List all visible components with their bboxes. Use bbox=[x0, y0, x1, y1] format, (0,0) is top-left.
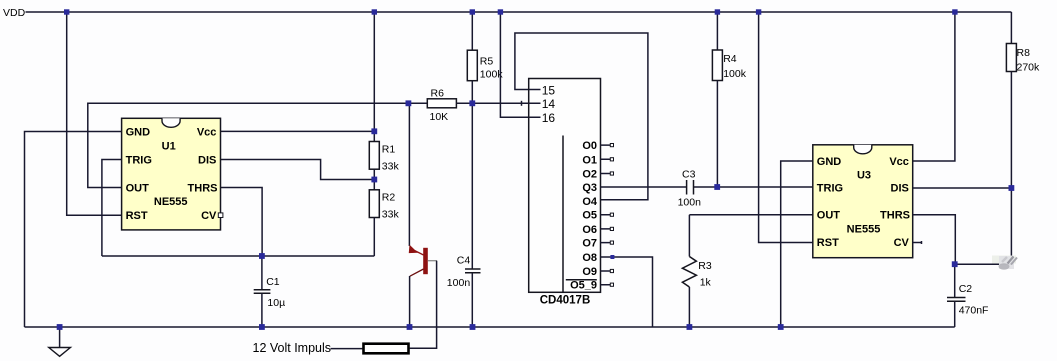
wire U1 Vcc to R1 top bbox=[221, 130, 375, 132]
svg-text:O6: O6 bbox=[582, 224, 597, 236]
svg-text:O8: O8 bbox=[582, 252, 597, 264]
svg-text:CV: CV bbox=[201, 210, 217, 222]
wire collector to bottom rail bbox=[409, 276, 411, 327]
svg-text:O4: O4 bbox=[582, 196, 598, 208]
svg-text:R6: R6 bbox=[431, 87, 445, 99]
wire U1 DIS to R1/R2 junction bbox=[221, 160, 375, 180]
svg-text:O5_9: O5_9 bbox=[570, 280, 597, 292]
svg-text:16: 16 bbox=[542, 111, 556, 125]
svg-text:10µ: 10µ bbox=[267, 297, 285, 309]
svg-text:10K: 10K bbox=[430, 111, 449, 123]
svg-text:C2: C2 bbox=[959, 283, 973, 295]
wire U1 RST to VDD rail bbox=[67, 12, 122, 215]
svg-text:33k: 33k bbox=[382, 208, 400, 220]
resistor R4 bbox=[712, 12, 746, 187]
wire U3 THRS to C2 node bbox=[913, 215, 956, 264]
svg-text:O9: O9 bbox=[582, 266, 597, 278]
svg-text:RST: RST bbox=[817, 237, 839, 249]
svg-text:DIS: DIS bbox=[891, 183, 909, 195]
svg-text:R1: R1 bbox=[382, 144, 396, 156]
svg-text:Vcc: Vcc bbox=[889, 156, 909, 168]
svg-text:12 Volt Impuls: 12 Volt Impuls bbox=[253, 341, 332, 355]
wire O4 loop to CD4017 pin 15 bbox=[515, 33, 648, 200]
svg-text:O0: O0 bbox=[582, 140, 597, 152]
wire U1 TRIG down to lower net bbox=[102, 160, 122, 257]
IC CD4017B bbox=[529, 79, 601, 307]
svg-text:R8: R8 bbox=[1017, 47, 1031, 59]
svg-text:33k: 33k bbox=[382, 161, 400, 173]
wire VDD to R1 chain bbox=[373, 12, 375, 142]
transistor Q1 bbox=[409, 246, 437, 277]
resistor R5 bbox=[467, 12, 503, 103]
op-amp U3 NE555 bbox=[813, 145, 913, 258]
wire U1 THRS down to lower net bbox=[221, 188, 263, 257]
svg-text:DIS: DIS bbox=[198, 154, 216, 166]
svg-text:470nF: 470nF bbox=[959, 304, 989, 316]
ground symbol bbox=[49, 327, 71, 356]
capacitor C3 bbox=[678, 169, 702, 209]
wire emitter to OUT/R6 junction bbox=[408, 103, 410, 246]
wire R3 top to U3 OUT bbox=[689, 214, 812, 216]
wire U3 DIS to R8 bbox=[913, 187, 1012, 189]
U3 CV stub bbox=[913, 241, 922, 244]
svg-text:1k: 1k bbox=[700, 277, 712, 289]
svg-text:Vcc: Vcc bbox=[197, 126, 217, 138]
svg-text:OUT: OUT bbox=[817, 210, 841, 222]
svg-text:O2: O2 bbox=[582, 169, 597, 181]
wire VDD to CD4017 pin 16 bbox=[500, 12, 540, 117]
wire VDD to U3 RST bbox=[759, 12, 813, 243]
svg-text:C3: C3 bbox=[682, 169, 696, 181]
wire base down to impulse box bbox=[410, 261, 437, 349]
resistor R1 bbox=[369, 142, 399, 173]
svg-text:C4: C4 bbox=[457, 254, 471, 266]
svg-text:O1: O1 bbox=[582, 154, 597, 166]
svg-text:R2: R2 bbox=[382, 191, 396, 203]
wire U3 GND to bottom rail bbox=[781, 161, 813, 327]
wire Q3 to C3 to U3 TRIG bbox=[601, 186, 813, 188]
pin 14 end tick bbox=[521, 101, 523, 106]
svg-text:CV: CV bbox=[894, 237, 910, 249]
svg-text:CD4017B: CD4017B bbox=[540, 294, 591, 306]
svg-text:15: 15 bbox=[542, 83, 556, 97]
svg-text:THRS: THRS bbox=[880, 210, 910, 222]
wire lower net THRS/C1/R2 bbox=[102, 255, 374, 257]
wire U1 GND to bottom-left rail corner bbox=[25, 132, 122, 328]
op-amp U1 NE555 bbox=[122, 118, 223, 230]
watermark cursor artifact bbox=[992, 256, 1017, 270]
resistor R3 zigzag bbox=[682, 215, 711, 327]
capacitor C1 bbox=[254, 256, 285, 327]
capacitor C4 bbox=[447, 103, 481, 327]
wire label to impulse box bbox=[331, 348, 363, 350]
wire bottom ground rail bbox=[25, 326, 955, 328]
svg-text:O5: O5 bbox=[582, 210, 597, 222]
svg-text:270k: 270k bbox=[1017, 61, 1041, 73]
capacitor C2 bbox=[947, 264, 988, 327]
svg-text:14: 14 bbox=[542, 97, 556, 111]
svg-text:VDD: VDD bbox=[3, 7, 26, 19]
svg-text:R4: R4 bbox=[723, 53, 737, 65]
svg-text:TRIG: TRIG bbox=[126, 154, 152, 166]
svg-text:O7: O7 bbox=[582, 238, 597, 250]
svg-text:NE555: NE555 bbox=[154, 196, 188, 208]
svg-text:GND: GND bbox=[817, 156, 842, 168]
svg-text:R5: R5 bbox=[480, 56, 494, 68]
svg-text:NE555: NE555 bbox=[847, 223, 881, 235]
svg-text:C1: C1 bbox=[266, 276, 280, 288]
wire R2 bottom to lower net bbox=[373, 218, 375, 257]
resistor R2 bbox=[369, 190, 399, 221]
wire R8 bottom to THRS node bbox=[955, 188, 1012, 264]
wire R1 to R2 bbox=[373, 169, 375, 190]
wire U3 Vcc to VDD rail bbox=[913, 12, 955, 161]
svg-text:OUT: OUT bbox=[126, 182, 150, 194]
wire VDD top rail bbox=[26, 11, 1012, 13]
svg-text:100k: 100k bbox=[723, 68, 747, 80]
CD4017 unconnected pin stubs right bbox=[601, 144, 614, 287]
svg-text:GND: GND bbox=[126, 126, 151, 138]
svg-text:RST: RST bbox=[126, 210, 148, 222]
wire R6 junction to CD4017 pin 14 bbox=[472, 102, 540, 104]
wire O8 to bottom rail bbox=[601, 257, 653, 327]
svg-text:THRS: THRS bbox=[188, 182, 218, 194]
svg-text:100n: 100n bbox=[678, 196, 702, 208]
svg-text:Q3: Q3 bbox=[582, 182, 597, 194]
wire U1 OUT up and right to R6 bbox=[88, 103, 428, 187]
connector box 12V impulse bbox=[364, 344, 409, 354]
resistor R8 bbox=[1006, 12, 1040, 188]
svg-text:100n: 100n bbox=[447, 277, 471, 289]
svg-text:U3: U3 bbox=[857, 169, 871, 181]
svg-text:R3: R3 bbox=[698, 260, 712, 272]
svg-text:TRIG: TRIG bbox=[817, 183, 843, 195]
resistor R6 bbox=[427, 87, 472, 123]
svg-text:U1: U1 bbox=[162, 141, 176, 153]
